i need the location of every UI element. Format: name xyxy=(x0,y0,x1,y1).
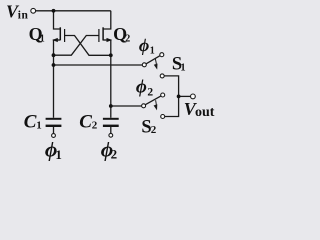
wire output rail to S1 xyxy=(54,64,143,66)
svg-text:C: C xyxy=(24,112,37,133)
label phi1 bottom xyxy=(45,138,62,163)
terminal C2 phi2 xyxy=(109,133,113,137)
svg-text:1: 1 xyxy=(150,46,155,57)
switch S2 lever tip xyxy=(161,93,165,97)
node Vout junction xyxy=(177,95,181,99)
label phi1 switch xyxy=(139,35,155,57)
wire Vout stub xyxy=(179,95,191,97)
label phi2 switch xyxy=(136,77,154,99)
label phi2 bottom xyxy=(101,138,117,162)
svg-text:1: 1 xyxy=(40,34,45,45)
svg-text:1: 1 xyxy=(55,147,62,162)
svg-text:ϕ: ϕ xyxy=(136,77,147,98)
node junction dots xyxy=(52,9,181,108)
label S2 xyxy=(141,118,156,138)
wire cross-coupling Q1 gate to right node xyxy=(65,36,111,56)
switch S2 pivot contact xyxy=(142,104,146,108)
switch S2 actuation arrow xyxy=(154,100,158,110)
wire S2 output to bus xyxy=(165,96,179,116)
wire S1 output to bus xyxy=(164,76,179,97)
svg-text:2: 2 xyxy=(125,34,130,45)
wire Q1 source lead and C1 column xyxy=(54,40,61,118)
svg-text:1: 1 xyxy=(180,63,185,74)
wire Vin top rail xyxy=(36,10,111,12)
wire Q1 drain lead xyxy=(54,11,60,29)
switch S1 pivot contact xyxy=(142,63,146,67)
switch S1 actuation arrow xyxy=(154,59,158,70)
node Vin/Q1 drain xyxy=(52,9,56,13)
label Q2 xyxy=(113,24,130,45)
transistor Q1 xyxy=(52,27,64,42)
svg-text:out: out xyxy=(195,105,215,120)
svg-text:2: 2 xyxy=(151,124,157,136)
wire cross-coupling Q2 gate to left node xyxy=(54,36,99,56)
switch S1 lever tip xyxy=(160,53,164,57)
wire C1 bottom stub xyxy=(53,127,55,134)
switch S2 throw contact xyxy=(161,115,165,119)
terminal C1 phi1 xyxy=(52,134,56,138)
svg-text:C: C xyxy=(79,112,92,133)
capacitor C1 xyxy=(46,118,62,127)
wire node rail to S2 xyxy=(111,105,142,107)
terminal Vin xyxy=(31,8,36,13)
svg-text:ϕ: ϕ xyxy=(139,35,149,55)
wire Q2 drain lead xyxy=(103,11,111,29)
label C2 xyxy=(79,112,98,133)
svg-text:2: 2 xyxy=(92,119,98,131)
wire S1 lever xyxy=(146,56,160,64)
svg-text:2: 2 xyxy=(111,147,118,162)
label S1 xyxy=(172,55,186,75)
terminal Vout xyxy=(191,94,196,99)
node right cross-couple xyxy=(109,53,113,57)
transistor Q2 xyxy=(99,27,112,42)
svg-text:2: 2 xyxy=(147,86,153,98)
node left output rail xyxy=(52,63,56,67)
label C1 xyxy=(24,112,42,133)
switch S1 throw contact xyxy=(160,74,164,78)
open terminals xyxy=(31,8,196,137)
capacitor C2 xyxy=(103,118,119,127)
svg-text:1: 1 xyxy=(36,119,42,131)
label Vin xyxy=(6,1,28,21)
wire Q2 source lead and C2 column xyxy=(103,40,111,118)
svg-text:in: in xyxy=(18,10,29,22)
node right S2 rail xyxy=(109,104,113,108)
node left cross-couple xyxy=(52,53,56,57)
label Vout xyxy=(184,99,215,120)
wire S2 lever xyxy=(145,96,161,105)
label Q1 xyxy=(29,24,45,45)
wire C2 bottom stub xyxy=(110,127,112,134)
